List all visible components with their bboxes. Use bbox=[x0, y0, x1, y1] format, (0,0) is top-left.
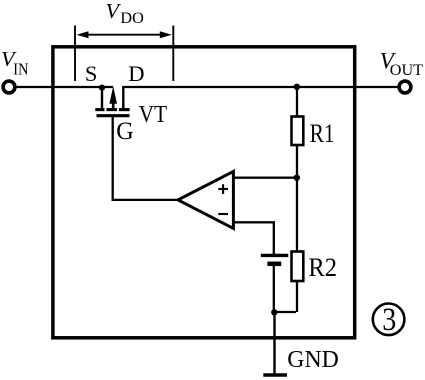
label VOUT bbox=[380, 49, 424, 79]
figure number 3 circled bbox=[373, 302, 405, 338]
dimension tick right bbox=[172, 26, 174, 82]
channel segment middle bbox=[106, 108, 117, 111]
label VDO bbox=[106, 0, 145, 27]
wire gate lead down bbox=[112, 117, 114, 201]
node ground junction dot bbox=[271, 309, 277, 315]
dimension arrow VDO bbox=[77, 31, 172, 38]
node S junction dot bbox=[99, 85, 105, 91]
svg-text:S: S bbox=[85, 61, 98, 86]
label R2 bbox=[308, 252, 337, 282]
node Vout terminal bbox=[399, 81, 411, 93]
wire Vout node down to R1 bbox=[296, 87, 298, 116]
battery reference positive plate bbox=[261, 254, 289, 257]
transistor VT (PMOS pass device) bbox=[95, 86, 129, 116]
battery reference negative plate bbox=[267, 262, 281, 267]
svg-text:OUT: OUT bbox=[390, 61, 423, 79]
label R1 bbox=[310, 118, 335, 148]
wire R1 to feedback node bbox=[296, 146, 298, 251]
source stub bbox=[101, 87, 103, 110]
wire Vin to S node bbox=[15, 86, 113, 88]
wire ground node to GND bbox=[273, 312, 275, 374]
body arrow bbox=[112, 101, 115, 110]
node Vout junction dot bbox=[294, 84, 300, 90]
channel segment right bbox=[119, 108, 130, 111]
svg-text:G: G bbox=[116, 116, 134, 145]
node feedback junction dot bbox=[294, 175, 300, 181]
regulator box outline bbox=[53, 47, 355, 338]
drain stub bbox=[122, 87, 124, 110]
channel segment left bbox=[95, 108, 104, 111]
svg-text:DO: DO bbox=[120, 9, 144, 27]
node Vin terminal bbox=[3, 81, 15, 93]
svg-text:D: D bbox=[128, 61, 144, 86]
label VT bbox=[139, 102, 167, 128]
label S bbox=[85, 61, 98, 86]
gate bar bbox=[97, 114, 130, 117]
label GND bbox=[287, 346, 339, 373]
wire battery to ground node bbox=[273, 266, 275, 313]
op-amp U1 bbox=[178, 171, 233, 228]
wire gate to op-amp output bbox=[112, 199, 179, 201]
ground bar bbox=[263, 373, 287, 376]
plus sign bbox=[218, 188, 228, 190]
resistor R2 bbox=[292, 252, 304, 282]
svg-text:GND: GND bbox=[287, 346, 339, 373]
label D bbox=[128, 61, 144, 86]
wire op-amp plus input to R1/R2 node bbox=[233, 177, 298, 179]
label VIN bbox=[1, 47, 29, 78]
svg-text:R1: R1 bbox=[310, 118, 335, 148]
svg-text:VT: VT bbox=[139, 102, 167, 128]
svg-text:IN: IN bbox=[13, 59, 28, 78]
svg-text:3: 3 bbox=[382, 302, 396, 338]
label G bbox=[116, 116, 134, 145]
wire D to Vout bbox=[122, 86, 399, 88]
wire op-amp minus input to reference bbox=[233, 222, 275, 254]
dimension tick left bbox=[74, 26, 76, 82]
resistor R1 bbox=[292, 117, 304, 146]
svg-text:R2: R2 bbox=[308, 252, 337, 282]
minus sign bbox=[218, 213, 228, 215]
wire R2 to ground node bbox=[274, 281, 297, 312]
